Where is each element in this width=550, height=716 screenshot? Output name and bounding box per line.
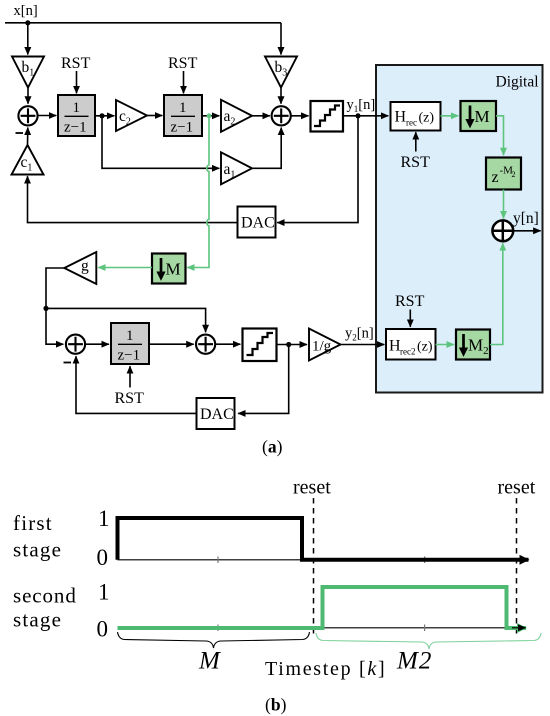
svg-text:rec2: rec2 (400, 347, 416, 357)
PART A (5, 3, 543, 457)
wire green: Hrec2 to decimator M2 (436, 344, 455, 346)
DAC D1 (238, 207, 276, 238)
svg-text:y1[n]: y1[n] (347, 97, 376, 114)
svg-text:reset: reset (293, 477, 331, 499)
wire: feedforward to S4 top (46, 308, 206, 332)
svg-text:RST: RST (61, 55, 91, 72)
wire: S2 to quantizer Q1 (291, 115, 309, 117)
node: feedforward tap (43, 306, 48, 311)
svg-text:x[n]: x[n] (14, 3, 38, 19)
wire: a1 to S2 bottom (252, 128, 281, 169)
svg-text:1: 1 (126, 328, 134, 344)
svg-text:Digital: Digital (496, 74, 539, 91)
wire: I2 to a2 (202, 115, 219, 117)
decimator M (stage 2) (152, 254, 186, 284)
wire green: M2 up to summer S5 (490, 243, 503, 344)
wire: y2 tap down to DAC2 (238, 345, 289, 414)
filter Hrec2(z) (386, 329, 436, 360)
node: input tap junction (25, 20, 30, 25)
svg-text:(b): (b) (265, 695, 287, 715)
gain b1 (12, 57, 44, 88)
gain c1 (12, 145, 44, 175)
axis arrowhead row2 (black over green) (512, 627, 526, 629)
svg-text:H: H (395, 109, 407, 126)
wire: input top rail (5, 22, 281, 24)
second stage waveform (118, 587, 527, 628)
reset dashed line left (313, 498, 315, 635)
delay z^-M2 (486, 158, 521, 190)
wire: RST up into I3 (129, 366, 131, 387)
svg-text:z: z (492, 169, 499, 186)
wire: tap down to b1 (27, 23, 29, 55)
gain c2 (116, 100, 147, 131)
wire: y1 tap down to DAC1 (277, 116, 358, 223)
summer S3 (66, 335, 85, 354)
wire: S1 to integrator I1 (38, 115, 57, 117)
wire green: decimator to gain g (98, 267, 152, 269)
brace M (black) (118, 632, 310, 648)
svg-text:RST: RST (401, 154, 431, 171)
wire: Q1 output to Hrec (343, 115, 388, 117)
wire: S3 to integrator I3 (85, 343, 109, 345)
wire: 1/g to Hrec2 (341, 344, 385, 346)
summer S5 (492, 220, 513, 241)
summer S4 (196, 335, 215, 354)
wire: b3 to S2 (280, 88, 282, 104)
wire: c1 to S1 bottom (27, 128, 29, 145)
PART B (13, 477, 541, 715)
svg-text:RST: RST (168, 55, 198, 72)
node: I1 output tap (99, 113, 104, 118)
wire: DAC2 feedback to S3 bottom (76, 356, 197, 413)
wire: S5 output y[n] (513, 230, 541, 232)
filter Hrec(z) (391, 102, 441, 131)
DAC D2 (197, 398, 235, 429)
reset dashed line right (516, 498, 518, 635)
svg-text:RST: RST (115, 390, 145, 407)
wire: RST into I2 (183, 71, 185, 93)
decimator M2 (456, 330, 490, 360)
wire: Q2 output to 1/g (277, 344, 308, 346)
gain a2 (221, 100, 252, 132)
minus sign at S1 (16, 132, 24, 134)
svg-text:second: second (13, 584, 77, 608)
wire: a1 branch from I1 output (102, 116, 219, 169)
svg-text:stage: stage (13, 608, 62, 632)
first stage waveform (118, 518, 529, 560)
tick row1 b (424, 557, 426, 564)
svg-text:first: first (13, 511, 53, 535)
node: y2 tap junction (286, 342, 291, 347)
svg-text:RST: RST (395, 293, 425, 310)
gain a1 (221, 152, 252, 184)
svg-text:Timestep [k]: Timestep [k] (265, 658, 386, 680)
wire green: main tap down to stage2 decimator (187, 116, 209, 268)
minus sign at S3 (64, 362, 72, 364)
wire green: Hrec to decimator M (441, 115, 459, 117)
wire: a2 to summer S2 (252, 115, 270, 117)
wire: DAC1 feedback to c1 (28, 176, 238, 222)
node: y1 tap junction (355, 113, 360, 118)
svg-text:1: 1 (98, 506, 110, 531)
tick row2 b (424, 625, 426, 632)
wire: I1 to c2 (95, 115, 114, 117)
svg-text:DAC: DAC (241, 215, 275, 232)
wire green: M to z-M2 delay (496, 116, 504, 155)
svg-text:y[n]: y[n] (513, 210, 539, 227)
decimator M (digital) (461, 101, 497, 131)
svg-text:g: g (81, 258, 89, 275)
wire: c2 to integrator I2 (147, 115, 162, 117)
quantizer Q2 (243, 329, 277, 362)
svg-text:(z): (z) (417, 340, 433, 355)
wire: top rail corner down to b3 (280, 23, 282, 55)
brace M2 (green) (316, 633, 541, 649)
axis row1 (118, 559, 525, 561)
svg-text:M: M (198, 648, 221, 675)
axis row2 (118, 627, 525, 629)
svg-text:M: M (475, 107, 490, 126)
gain 1/g (309, 329, 341, 361)
svg-text:y2[n]: y2[n] (345, 326, 374, 343)
gain g (64, 252, 96, 284)
wire: RST into I1 (76, 71, 78, 93)
quantizer Q1 (311, 101, 344, 132)
svg-text:(z): (z) (419, 111, 435, 126)
tick row1 a (217, 557, 219, 564)
svg-text:1: 1 (179, 100, 187, 116)
svg-text:1: 1 (73, 100, 81, 116)
wire: b1 to summer S1 (27, 88, 29, 104)
svg-text:rec: rec (406, 118, 417, 128)
wire: S4 to quantizer Q2 (215, 343, 240, 345)
tick row2 a (217, 625, 219, 632)
svg-text:z−1: z−1 (64, 120, 87, 136)
digital region box (376, 65, 543, 393)
integrator I3 1/(z-1) (111, 323, 149, 364)
svg-text:z−1: z−1 (118, 348, 141, 364)
svg-text:z−1: z−1 (171, 120, 194, 136)
svg-text:0: 0 (97, 545, 109, 570)
summer S2 (272, 106, 291, 125)
svg-text:M: M (166, 260, 181, 279)
wire: g output to summer S3 (46, 268, 64, 344)
svg-text:2: 2 (512, 170, 516, 179)
svg-text:1/g: 1/g (312, 339, 332, 355)
gain b3 (265, 57, 297, 88)
svg-text:0: 0 (97, 617, 109, 642)
svg-text:DAC: DAC (200, 406, 234, 423)
svg-text:stage: stage (13, 538, 62, 562)
wire: I3 to summer S4 (149, 343, 194, 345)
summer S1 (18, 106, 37, 125)
wire: RST down into Hrec2 (409, 310, 411, 327)
svg-text:M2: M2 (396, 648, 432, 675)
wire: RST up into Hrec (415, 132, 417, 151)
integrator I2 1/(z-1) (164, 95, 202, 136)
wire green: delay to summer S5 (503, 190, 505, 219)
integrator I1 1/(z-1) (58, 95, 95, 136)
node: green tap on I2 output (207, 113, 212, 118)
svg-text:(a): (a) (262, 437, 283, 457)
svg-text:reset: reset (498, 477, 536, 499)
svg-text:1: 1 (98, 580, 110, 605)
